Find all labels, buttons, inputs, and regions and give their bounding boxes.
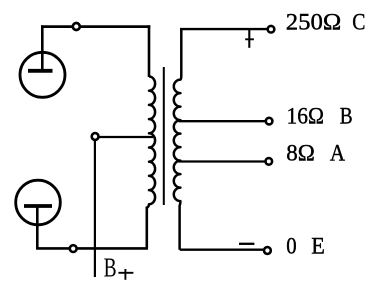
terminal B: [266, 118, 273, 125]
tube V1 plate bar: [28, 69, 53, 73]
terminal at center tap: [92, 133, 99, 140]
minus polarity mark: [239, 243, 254, 245]
svg-text:B: B: [340, 104, 353, 130]
terminal A: [266, 158, 273, 165]
tube V1 plate lead: [41, 25, 44, 71]
plus polarity mark: [248, 30, 250, 48]
wire: secondary tap to terminal B: [179, 120, 266, 122]
tube V2 plate lead: [36, 206, 39, 250]
svg-text:8Ω: 8Ω: [286, 141, 315, 167]
tube V2 plate bar: [24, 204, 52, 208]
wire: secondary top to terminal C: [180, 28, 267, 30]
wire: bottom-left horizontal from V2 to primary bottom: [36, 247, 148, 250]
terminal E: [264, 247, 271, 254]
svg-text:0: 0: [286, 234, 296, 260]
svg-text:E: E: [311, 234, 325, 260]
svg-text:A: A: [330, 141, 345, 167]
tube V1 (upper output tube) envelope: [20, 52, 65, 97]
wire: B+ vertical line: [94, 141, 96, 277]
wire: primary bottom lead down: [146, 207, 149, 249]
wire: secondary tap to terminal A: [179, 160, 265, 162]
wire: vertical down to primary winding top: [148, 25, 151, 77]
transformer core: [163, 67, 165, 205]
wire: secondary bottom to terminal E: [180, 249, 263, 251]
terminal C: [268, 26, 275, 33]
transformer secondary winding S1 (arcs bulge toward core, cusps right): [174, 28, 182, 250]
svg-text:C: C: [352, 10, 365, 36]
wire: primary center tap to B+: [98, 136, 153, 138]
terminal on bottom-left wire: [70, 245, 77, 252]
tube V2 (lower output tube) envelope: [16, 180, 61, 225]
svg-text:250Ω: 250Ω: [286, 10, 342, 36]
transformer primary winding P1 (arcs bulge toward core, cusps left): [147, 77, 155, 208]
terminal on top-left wire: [73, 23, 80, 30]
svg-text:16Ω: 16Ω: [287, 104, 325, 130]
svg-text:B: B: [104, 252, 117, 282]
wire: top-left horizontal from V1 to primary top: [41, 25, 150, 28]
